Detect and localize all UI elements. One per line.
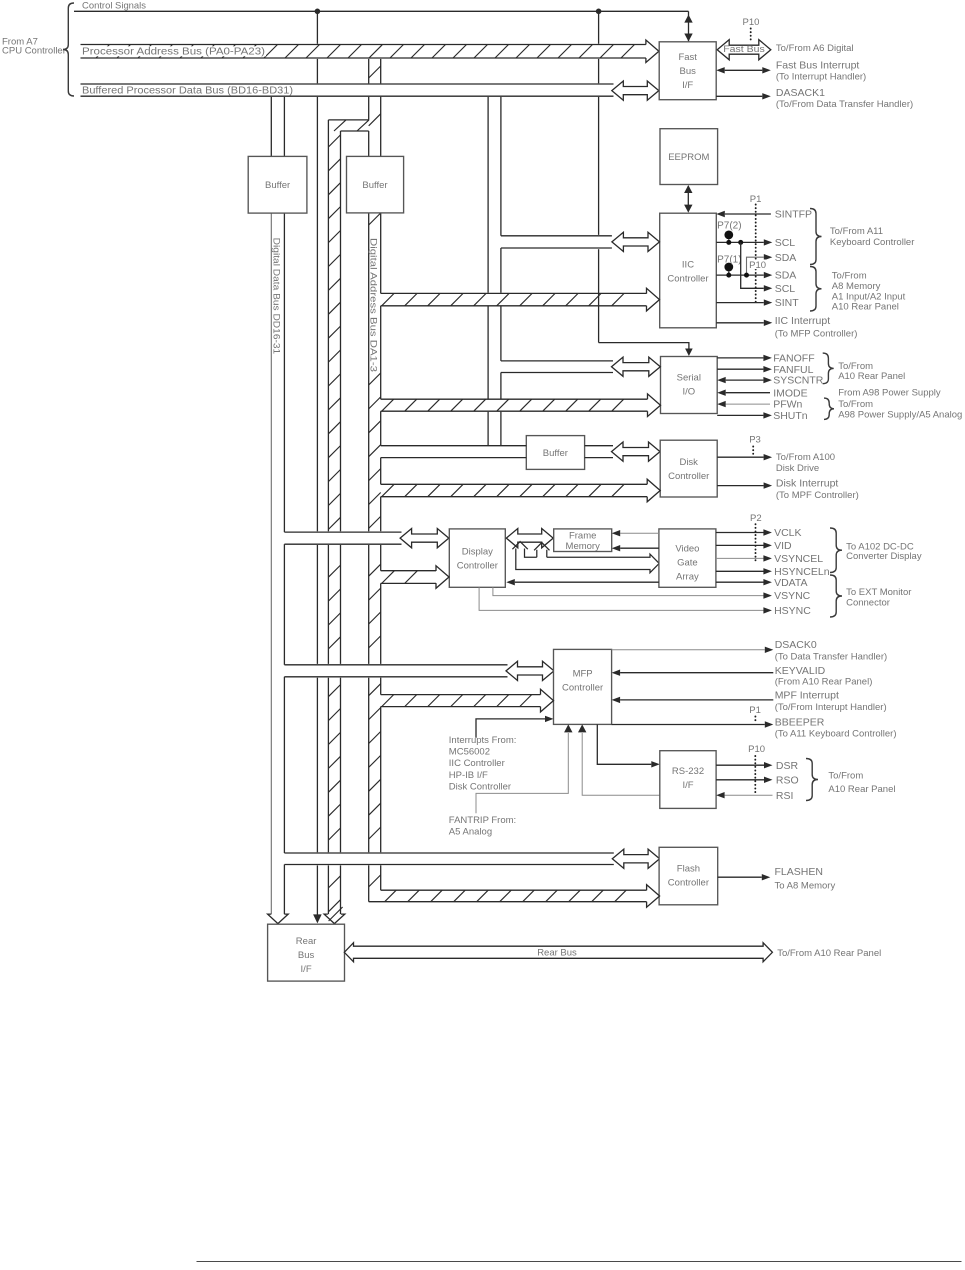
svg-text:Connector: Connector [846,598,890,609]
label Fast Bus Interrupt [776,60,866,83]
block Disk Controller [660,440,717,497]
svg-text:Buffer: Buffer [362,180,387,191]
wire VGA to Frame Memory line 1 [612,530,659,536]
svg-text:DSACK0: DSACK0 [775,639,817,651]
wire VDATA right [716,579,772,585]
svg-text:P2: P2 [750,513,762,524]
svg-text:(To/From Data Transfer Handler: (To/From Data Transfer Handler) [776,99,913,110]
arrow Fast Bus (hollow double named) [717,40,771,60]
svg-text:IIC Interrupt: IIC Interrupt [775,315,831,327]
bus MFP address branch [381,689,554,712]
label VDATA [774,577,807,589]
label Digital Address Bus DA1-3 (rotated) [367,237,378,374]
svg-text:EEPROM: EEPROM [668,152,709,163]
bus IIC address branch [381,288,660,311]
label SCL 2 [775,283,796,295]
svg-text:Disk Controller: Disk Controller [449,781,511,792]
label To/From A8 Memory etc [832,270,906,312]
svg-text:A10 Rear Panel: A10 Rear Panel [828,784,895,795]
svg-text:Controller: Controller [562,683,603,694]
label SDA 2 [775,270,797,282]
svg-text:IMODE: IMODE [773,387,807,399]
svg-text:VID: VID [774,540,792,552]
label From A7 CPU Controller [2,37,66,57]
wire VDATA VGA to Display [506,579,659,585]
brace IIC keyboard group [810,209,822,265]
wire SDA 1 (from P10 elbow) [747,254,773,275]
svg-text:SCL: SCL [775,237,796,249]
bus Serial data branch [501,361,613,373]
svg-text:A10 Rear Panel: A10 Rear Panel [832,301,899,312]
label Buffered Processor Data Bus (BD16-BD31) [81,85,303,96]
label FANTRIP From [449,815,516,838]
svg-text:Memory: Memory [566,541,601,552]
bus Flash address branch (bottom of bus B) [369,885,660,908]
label From A98 Power Supply [838,388,941,399]
wire KEYVALID [612,670,774,676]
bus Display address branch [381,566,449,589]
svg-text:(From A10 Rear Panel): (From A10 Rear Panel) [775,676,873,687]
wire SINT [716,299,772,305]
label VSYNCEL [774,553,823,565]
svg-text:Control Signals: Control Signals [82,0,146,11]
svg-text:SDA: SDA [775,252,797,264]
wire VCLK [716,529,772,535]
arrow MFP data (bidirectional hollow) [506,661,554,680]
label Interrupts From list [449,735,517,792]
label HSYNCELn [774,566,830,578]
bus disk buffer data branch out [585,446,613,458]
label RSO [776,774,799,786]
svg-text:Frame: Frame [569,531,596,542]
label KEYVALID [775,665,873,687]
svg-text:Controller: Controller [667,274,708,285]
wire bent hollow arrow Display/FrameMemory to Video Gate Array [512,542,659,573]
svg-text:P1: P1 [750,194,762,205]
label FANFUL [773,364,813,376]
svg-text:P3: P3 [749,435,761,446]
wire SDA 2 [716,272,772,278]
wire VSYNC from Display bottom [493,587,772,599]
block Serial I/O [661,357,718,414]
svg-text:Disk Drive: Disk Drive [776,463,819,474]
label To A102 DC-DC [846,541,922,561]
label SINT [775,297,800,309]
svg-text:To/From: To/From [832,270,867,281]
svg-text:(To MPF Controller): (To MPF Controller) [776,490,859,501]
bus A hatches [328,135,340,912]
svg-text:From A98 Power Supply: From A98 Power Supply [838,388,941,399]
svg-text:P1: P1 [749,705,761,716]
svg-text:To/From: To/From [838,399,873,410]
svg-text:VCLK: VCLK [774,527,801,539]
svg-text:Digital Address Bus DA1-3: Digital Address Bus DA1-3 [367,238,378,372]
label RSI [776,790,794,802]
svg-text:P10: P10 [743,17,760,28]
svg-text:Digital Data Bus DD16-31: Digital Data Bus DD16-31 [271,238,282,355]
wire IIC Interrupt [716,320,772,326]
label Disk Interrupt [776,477,859,501]
bus disk buffer data branch in [381,446,527,458]
arrow Disk data (bidirectional hollow) [612,442,661,461]
label DSR [776,760,799,772]
brace from-A7 group [63,3,74,96]
svg-text:VDATA: VDATA [774,577,807,589]
wire SHUTn [717,412,772,418]
wire DSACK0 [612,647,774,653]
bus Disk address branch [381,479,661,502]
jumper P7(2) [717,220,743,245]
arrow IIC data (bidirectional hollow) [612,232,660,251]
svg-text:PFWn: PFWn [773,399,802,411]
arrow data bus to Fast Bus I/F (bidirectional hollow) [612,81,659,100]
block RS-232 I/F [660,751,716,809]
label To/From A6 Digital [776,43,854,54]
svg-text:P7(1): P7(1) [717,254,741,265]
svg-text:Bus: Bus [298,950,315,961]
block Buffer 2 [347,156,404,213]
wire SCL 1 [716,239,772,245]
svg-text:P7(2): P7(2) [717,220,741,231]
arrow Rear Bus (hollow double, to rear panel) [344,943,772,962]
svg-text:To/From A10 Rear Panel: To/From A10 Rear Panel [777,948,881,959]
label DSACK0 [775,639,887,663]
block Video Gate Array [659,529,716,587]
label To/From A100 Disk Drive [776,452,835,474]
bus Processor Address Bus rails [81,45,647,59]
label IIC Interrupt [775,315,858,340]
arrow Display data (bidirectional hollow) [400,529,449,548]
bus Digital Data Bus DD16-31 right rail [283,213,285,915]
label VID [774,540,792,552]
label FLASHEN [775,866,836,891]
svg-text:To/From A6 Digital: To/From A6 Digital [776,43,854,54]
svg-text:Controller: Controller [668,471,709,482]
svg-text:Controller: Controller [668,877,709,888]
wire HSYNC from Display bottom [479,587,772,613]
brace to EXT monitor group [830,575,842,617]
wire disk interrupt [717,482,772,488]
svg-text:Controller: Controller [457,560,498,571]
svg-text:To/From A11: To/From A11 [830,226,883,237]
footer rule [197,1261,962,1263]
svg-text:Disk Interrupt: Disk Interrupt [776,477,839,489]
wire data bus taps to Buffer 1 [271,97,284,156]
wire vertical data pair from data bus [488,97,501,446]
arrowhead bus A into Rear Bus I/F [324,907,345,924]
label BBEEPER [775,717,897,740]
connector P2 dotted [750,513,762,563]
block MFP Controller [554,649,612,724]
svg-text:Rear: Rear [296,936,317,947]
svg-text:SYSCNTR: SYSCNTR [773,375,824,387]
bus address top segment to Buffer 2 and jog [328,59,380,156]
svg-text:VSYNC: VSYNC [774,590,811,602]
wire control line to Rear Bus I/F [313,13,322,923]
label FANOFF [773,353,814,365]
svg-text:Buffer: Buffer [543,448,568,459]
svg-text:FANTRIP From:: FANTRIP From: [449,815,516,826]
wire FLASHEN [718,874,771,880]
svg-text:Array: Array [676,572,699,583]
wire PFWn [717,401,770,407]
arrow Display to Frame Memory (bidirectional hollow) [506,529,553,548]
block Buffer 1 [248,156,307,213]
connector P10 dotted (RS-232) [748,744,765,794]
arrowhead Digital Data Bus into Rear Bus I/F [268,914,289,924]
svg-text:I/F: I/F [301,964,312,975]
wire FANFUL [717,366,772,372]
svg-text:(To Data Transfer Handler): (To Data Transfer Handler) [775,652,887,663]
jumper P7(1) [717,254,749,277]
svg-text:Fast Bus Interrupt: Fast Bus Interrupt [776,60,860,72]
block IIC Controller [660,213,717,328]
svg-text:Keyboard Controller: Keyboard Controller [830,237,915,248]
label Control Signals [82,0,146,11]
wire IMODE [717,390,770,396]
label To/From A10 Rear Panel (rear bus) [777,948,881,959]
block Buffer 3 (disk) [526,436,584,470]
svg-text:Fast Bus: Fast Bus [723,44,765,55]
svg-text:Interrupts From:: Interrupts From: [449,735,517,746]
connector P3 dotted [749,435,761,457]
block EEPROM [660,129,718,185]
svg-text:A98 Power Supply/A5 Analog: A98 Power Supply/A5 Analog [838,410,962,421]
brace to A102 group [830,528,842,573]
svg-text:P10: P10 [748,744,765,755]
svg-text:A5 Analog: A5 Analog [449,827,492,838]
label To/From A98 Power Supply/A5 Analog [838,399,962,421]
label SYSCNTR [773,375,824,387]
svg-text:I/O: I/O [682,387,695,398]
svg-text:To EXT Monitor: To EXT Monitor [846,587,911,598]
bus Buffered Processor Data Bus rails [81,84,614,96]
brace IIC memory group [810,267,822,312]
bus A (address) hatched vertical rails [328,120,340,915]
svg-text:Processor Address Bus (PA0-PA2: Processor Address Bus (PA0-PA23) [82,47,265,58]
wire BBEEPER [612,721,774,727]
wire FANOFF [717,355,772,361]
svg-text:A8 Memory: A8 Memory [832,281,881,292]
svg-text:MPF Interrupt: MPF Interrupt [775,690,839,702]
arrowhead Processor Address Bus into Fast Bus I/F [646,40,659,63]
label SHUTn [773,410,808,422]
wire interrupts into MFP [476,716,554,738]
svg-text:RSI: RSI [776,790,794,802]
svg-text:IIC Controller: IIC Controller [449,758,505,769]
svg-text:MFP: MFP [573,669,593,680]
svg-text:Bus: Bus [680,66,697,77]
label Digital Data Bus DD16-31 (rotated) [271,237,282,356]
svg-text:MC56002: MC56002 [449,747,490,758]
svg-text:SCL: SCL [775,283,796,295]
connector P1 dotted (BBEEPER) [749,705,761,724]
arrow Flash data (bidirectional hollow) [612,849,659,868]
label SCL 1 [775,237,796,249]
wire control to Fast Bus I/F (bidirectional) [684,11,692,41]
wire HSYNCELn [716,568,772,574]
label P10 (IIC) [749,260,767,271]
svg-text:RS-232: RS-232 [672,766,704,777]
wire FANTRIP into MFP [476,724,573,813]
svg-text:Buffer: Buffer [265,180,290,191]
svg-text:HP-IB I/F: HP-IB I/F [449,770,488,781]
block Fast Bus I/F [659,42,716,100]
svg-text:HSYNC: HSYNC [774,605,811,617]
wire EEPROM to IIC (bidirectional) [684,185,692,213]
brace serial rear panel group [823,353,834,384]
svg-text:P10: P10 [749,260,766,271]
bus Serial address branch [381,394,661,417]
svg-text:I/F: I/F [682,80,693,91]
wire SCL 2 (jumpered) [741,242,773,291]
wire DSR [716,762,772,768]
svg-text:Rear Bus: Rear Bus [537,948,577,959]
brace RS-232 group [806,759,818,801]
svg-text:Video: Video [675,544,699,555]
wire VSYNCEL [716,555,772,561]
label IMODE [773,387,807,399]
svg-text:Fast: Fast [678,52,697,63]
label To EXT Monitor [846,587,911,609]
svg-text:(To/From Interupt Handler): (To/From Interupt Handler) [775,702,887,713]
wire control signals horizontal [74,10,689,12]
label Processor Address Bus (PA0-PA23) [81,46,266,57]
block Flash Controller [659,847,718,905]
label HSYNC [774,605,811,617]
svg-text:SINTFP: SINTFP [775,209,812,221]
label To/From A10 Rear Panel (RS-232) [828,770,895,795]
block Frame Memory [554,529,612,552]
svg-text:FLASHEN: FLASHEN [775,866,823,878]
svg-text:To A8 Memory: To A8 Memory [775,880,836,891]
wire SINTFP [716,211,771,217]
svg-text:Disk: Disk [679,457,698,468]
label SDA 1 [775,252,797,264]
svg-text:Display: Display [462,546,493,557]
label MPF Interrupt [775,690,887,713]
svg-text:To/From: To/From [828,770,863,781]
bus IIC data branch [501,236,612,248]
svg-text:FANOFF: FANOFF [773,353,814,365]
bus Digital Address Bus DA1-3 hatches [369,213,381,887]
label To/From A10 Rear Panel (serial) [838,361,905,382]
wire RSI right segment [716,792,772,798]
wire SYSCNTR [717,377,772,383]
svg-text:I/F: I/F [682,780,693,791]
wire disk drive [717,454,772,460]
wire MFP to RS-232 [597,724,660,767]
svg-text:IIC: IIC [682,260,694,271]
label VSYNC [774,590,811,602]
bus Processor Address Bus hatches [96,45,635,59]
svg-text:Gate: Gate [677,558,698,569]
bus Display data branch [284,532,401,544]
label DASACK1 [776,87,913,110]
svg-text:SHUTn: SHUTn [773,410,808,422]
svg-text:RSO: RSO [776,774,799,786]
junction dot control/rear [315,9,321,15]
bus Digital Address Bus DA1-3 rails [369,213,381,902]
svg-text:CPU Controller: CPU Controller [2,46,66,57]
wire RSI to MFP [578,724,716,795]
label VCLK [774,527,801,539]
svg-text:DSR: DSR [776,760,799,772]
svg-text:SDA: SDA [775,270,797,282]
bus MFP data branch [284,665,507,677]
wire MPF interrupt [612,697,774,703]
svg-text:Serial: Serial [677,373,701,384]
block Display Controller [449,529,505,587]
label PFWn [773,399,802,411]
svg-text:VSYNCEL: VSYNCEL [774,553,823,565]
svg-text:Flash: Flash [677,863,700,874]
svg-text:(To A11 Keyboard Controller): (To A11 Keyboard Controller) [775,728,897,739]
wire Fast Bus Interrupt [716,67,771,73]
wire VID [716,542,772,548]
svg-text:(To MFP Controller): (To MFP Controller) [775,329,858,340]
svg-text:SINT: SINT [775,297,800,309]
bus Digital Data Bus DD16-31 left rail [270,213,272,915]
block Rear Bus I/F [268,924,345,981]
svg-text:A10 Rear Panel: A10 Rear Panel [838,371,905,382]
svg-text:DASACK1: DASACK1 [776,87,825,99]
label To/From A11 Keyboard Controller [830,226,915,248]
brace serial power group [824,398,834,419]
label SINTFP [775,209,812,221]
connector P1 dotted (IIC) [750,194,762,302]
junction dot control/serial [596,9,602,15]
svg-text:Converter Display: Converter Display [846,551,922,562]
svg-text:Buffered Processor Data Bus (B: Buffered Processor Data Bus (BD16-BD31) [82,86,293,97]
bus Flash data branch [284,853,613,865]
svg-text:To/From A100: To/From A100 [776,452,835,463]
svg-text:KEYVALID: KEYVALID [775,665,826,677]
wire RSO [716,777,772,783]
arrow Serial data (bidirectional hollow) [612,357,661,376]
svg-text:BBEEPER: BBEEPER [775,717,825,729]
wire control line to Serial I/O [599,13,693,356]
svg-text:(To Interrupt Handler): (To Interrupt Handler) [776,72,866,83]
wire VGA to Frame Memory line 2 [612,545,659,551]
connector P10 dotted (Fast Bus) [743,17,760,41]
wire DASACK1 [716,93,771,99]
